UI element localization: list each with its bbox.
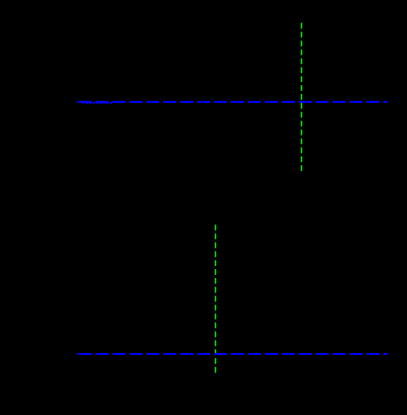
bottom subplot: leading blue sliver: [77, 353, 78, 355]
top subplot: leading blue sliver: [77, 101, 78, 103]
bottom subplot: green dashed vertical marker line: [215, 225, 217, 374]
top subplot: blue dashed horizontal threshold line: [78, 101, 387, 103]
top subplot: secondary blue dashed overlap segment (left end): [83, 102, 113, 104]
top subplot: green dashed vertical marker line: [301, 23, 303, 172]
bottom subplot: blue dashed horizontal threshold line: [79, 353, 388, 355]
